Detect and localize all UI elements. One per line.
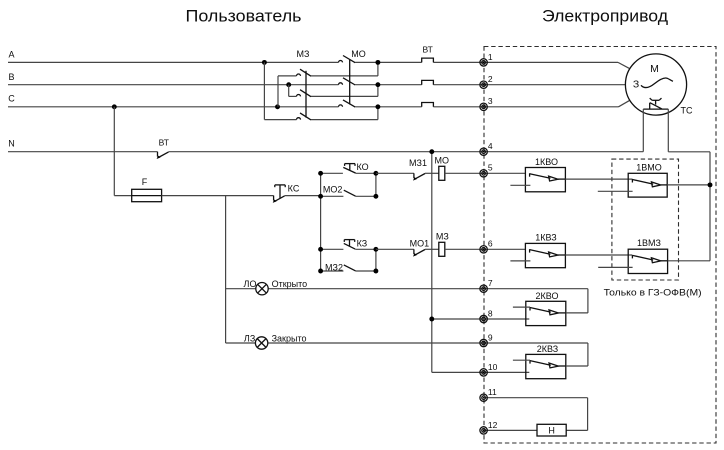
- wire coil MZ to t6: [445, 248, 526, 250]
- wire 1VMO out: [667, 184, 710, 186]
- contactor MZ main contact row4: [297, 118, 301, 120]
- node A out: [375, 60, 380, 65]
- svg-text:ЛО: ЛО: [244, 279, 257, 289]
- wire KC to left rail: [285, 195, 321, 197]
- svg-text:1: 1: [488, 52, 493, 62]
- svg-text:N: N: [8, 139, 15, 149]
- push-button KC stop: [273, 196, 275, 201]
- thermal heater VT phase C: [422, 103, 434, 107]
- svg-text:F: F: [142, 177, 148, 187]
- wire MZ row2 to B out: [311, 95, 378, 97]
- terminal 1: [480, 59, 487, 66]
- svg-text:1КВО: 1КВО: [535, 157, 558, 167]
- svg-text:Только в ГЗ-ОФВ(М): Только в ГЗ-ОФВ(М): [604, 288, 702, 298]
- contactor MO main contact phase A: [339, 60, 343, 62]
- svg-text:МО2: МО2: [323, 185, 343, 195]
- coil MZ: [439, 242, 445, 256]
- node MZ2 left: [318, 269, 323, 274]
- svg-text:В: В: [8, 72, 14, 82]
- node junction C feed: [275, 104, 280, 109]
- svg-text:Электропривод: Электропривод: [542, 8, 668, 26]
- svg-text:МО: МО: [435, 156, 450, 166]
- svg-text:6: 6: [488, 239, 493, 249]
- svg-text:МЗ1: МЗ1: [409, 158, 427, 168]
- svg-text:8: 8: [488, 308, 493, 318]
- svg-text:А: А: [8, 50, 14, 60]
- svg-text:ЛЗ: ЛЗ: [244, 334, 255, 344]
- limit switch 2KVO: [526, 301, 566, 325]
- motor wave symbol: [641, 78, 673, 88]
- wire MO2 branch: [321, 195, 344, 197]
- wire 2KVZ loop to t9: [566, 365, 588, 367]
- wire coil MO to t5: [445, 172, 526, 174]
- wire phase B: [8, 84, 339, 86]
- wire MZ2 branch: [321, 270, 344, 272]
- svg-text:9: 9: [488, 332, 493, 342]
- wire 1KVZ stub: [510, 260, 530, 262]
- terminal 2: [480, 81, 487, 88]
- wire KZ branch: [321, 248, 344, 250]
- thermal sensor TC contact: [643, 108, 668, 110]
- contactor MZ linkage: [305, 71, 307, 118]
- svg-text:2КВО: 2КВО: [536, 291, 559, 301]
- contactor MO main contact phase C: [339, 105, 343, 107]
- wire phase C: [8, 106, 339, 108]
- svg-text:М: М: [650, 63, 659, 75]
- aux contact MZ2: [344, 265, 356, 271]
- terminal 5: [480, 170, 487, 177]
- svg-text:КС: КС: [288, 184, 300, 194]
- terminal 11: [480, 394, 487, 401]
- svg-text:ВТ: ВТ: [423, 44, 433, 54]
- node bus top on N: [429, 149, 434, 154]
- wire t8 line: [432, 318, 530, 320]
- wire KZ to MO1: [376, 248, 414, 250]
- svg-text:МЗ: МЗ: [436, 231, 449, 241]
- svg-text:4: 4: [488, 141, 493, 151]
- wire center bus: [431, 152, 433, 373]
- svg-text:КО: КО: [357, 162, 369, 172]
- terminal 7: [480, 285, 487, 292]
- lamp LZ: [255, 337, 267, 349]
- svg-text:Закрыто: Закрыто: [272, 334, 307, 344]
- svg-text:Открыто: Открыто: [272, 279, 308, 289]
- push-button KO: [343, 167, 355, 173]
- svg-text:Пользователь: Пользователь: [186, 8, 302, 26]
- wire t12 line: [484, 429, 537, 431]
- push-button KZ: [344, 243, 355, 249]
- terminal 8: [480, 315, 487, 322]
- node B out: [375, 82, 380, 87]
- wire 1VMO stub: [598, 190, 633, 192]
- wire 1VMZ out: [668, 260, 710, 262]
- micro switch 1VMO: [628, 173, 667, 197]
- node junction B feed: [286, 82, 291, 87]
- wire 1KVZ to 1VMZ: [565, 254, 632, 256]
- node C out: [375, 104, 380, 109]
- svg-text:ТС: ТС: [681, 106, 693, 116]
- svg-text:МЗ: МЗ: [297, 49, 310, 59]
- node KO left: [318, 171, 323, 176]
- thermal relay contact VT on N: [157, 152, 159, 157]
- svg-text:1ВМЗ: 1ВМЗ: [637, 238, 661, 248]
- wire fuse to KC: [162, 195, 274, 197]
- interlock contact MZ1: [413, 173, 415, 178]
- terminal 12: [480, 427, 487, 434]
- svg-text:ВТ: ВТ: [159, 138, 169, 148]
- svg-text:7: 7: [488, 278, 493, 288]
- limit switch 2KVZ: [526, 354, 566, 378]
- contactor MO main contact phase B: [339, 83, 343, 85]
- wire C to MZ row1: [277, 76, 279, 107]
- terminal 4: [480, 148, 487, 155]
- contactor MO linkage: [349, 59, 351, 104]
- svg-text:МО: МО: [351, 49, 366, 59]
- wire 1KVO stub: [510, 184, 530, 186]
- wire MO1 to coil MZ: [425, 248, 439, 250]
- svg-text:1ВМО: 1ВМО: [636, 163, 662, 173]
- limit switch 1KVO: [525, 168, 565, 192]
- wire right rail KO-MO2: [375, 173, 377, 196]
- terminal 3: [480, 103, 487, 110]
- dashed box only-in-GZ-OFV option: [612, 159, 679, 280]
- contactor MZ main contact row2: [297, 95, 301, 97]
- wire 2KVO stub: [513, 306, 530, 308]
- svg-text:КЗ: КЗ: [357, 239, 368, 249]
- contactor MZ main contact row1: [297, 74, 301, 76]
- svg-text:МО1: МО1: [410, 239, 430, 249]
- wire LZ line: [226, 342, 256, 344]
- svg-text:МЗ2: МЗ2: [325, 262, 343, 272]
- lamp LO: [256, 283, 268, 295]
- limit switch 1KVZ: [525, 243, 565, 267]
- micro switch 1VMZ: [628, 249, 667, 273]
- svg-text:1КВЗ: 1КВЗ: [535, 232, 556, 242]
- wire 1VMZ stub: [598, 266, 632, 268]
- wire KO branch: [321, 172, 343, 174]
- aux contact MO2: [344, 190, 356, 196]
- wire 2KVZ stub: [513, 359, 530, 361]
- wire t11 loop: [484, 397, 588, 399]
- svg-text:12: 12: [488, 420, 498, 430]
- svg-text:5: 5: [488, 163, 493, 173]
- wire TC left to N: [642, 109, 644, 152]
- wire right rail KZ-MZ2: [375, 249, 377, 271]
- node MO2 right: [373, 194, 378, 199]
- wire MZ1 to coil MO: [425, 172, 439, 174]
- wire TC right down: [667, 109, 669, 152]
- wire lamp branch vertical: [225, 196, 227, 343]
- thermal heater VT phase A: [422, 58, 434, 62]
- heater H box: [537, 424, 566, 436]
- thermal heater VT phase B: [422, 80, 434, 84]
- wire phase A: [8, 61, 339, 63]
- dashed drive enclosure border: [484, 47, 716, 444]
- svg-text:2: 2: [488, 74, 493, 84]
- svg-text:11: 11: [488, 387, 497, 397]
- wire 2KVO loop to t7: [566, 312, 588, 314]
- node junction A feed: [262, 60, 267, 65]
- svg-text:3: 3: [488, 96, 493, 106]
- wire KO to MZ1: [376, 172, 414, 174]
- wire TC right to bus: [668, 151, 710, 153]
- terminal 9: [480, 339, 487, 346]
- node KZ right: [373, 247, 378, 252]
- svg-text:10: 10: [488, 362, 498, 372]
- interlock contact MO1: [413, 249, 415, 254]
- terminal 6: [480, 246, 487, 253]
- coil MO: [439, 166, 445, 180]
- node bus t8: [429, 317, 434, 322]
- svg-text:2КВЗ: 2КВЗ: [537, 344, 558, 354]
- wire MZ row1 to A out: [311, 75, 378, 77]
- svg-text:Н: Н: [548, 426, 555, 436]
- wire LO line: [226, 288, 256, 290]
- motor U1 circle: [625, 54, 686, 115]
- terminal 10: [480, 369, 487, 376]
- node 1VMO out: [708, 182, 713, 187]
- wire left control rail: [320, 173, 322, 271]
- wire A to MZ row4: [263, 62, 265, 119]
- wire B to MZ row2: [288, 85, 290, 97]
- node KZ left: [318, 247, 323, 252]
- node C tap junction: [112, 104, 117, 109]
- svg-text:С: С: [8, 94, 15, 104]
- wire neutral N: [8, 151, 158, 153]
- wire C tap down: [113, 107, 115, 196]
- svg-text:З: З: [633, 79, 639, 91]
- node KO right: [373, 171, 378, 176]
- node MO2 left: [318, 194, 323, 199]
- wire 1KVO to 1VMO: [565, 178, 632, 180]
- wire MZ row4 to C out: [311, 119, 378, 121]
- node MZ2 right: [373, 269, 378, 274]
- fuse F: [132, 189, 162, 201]
